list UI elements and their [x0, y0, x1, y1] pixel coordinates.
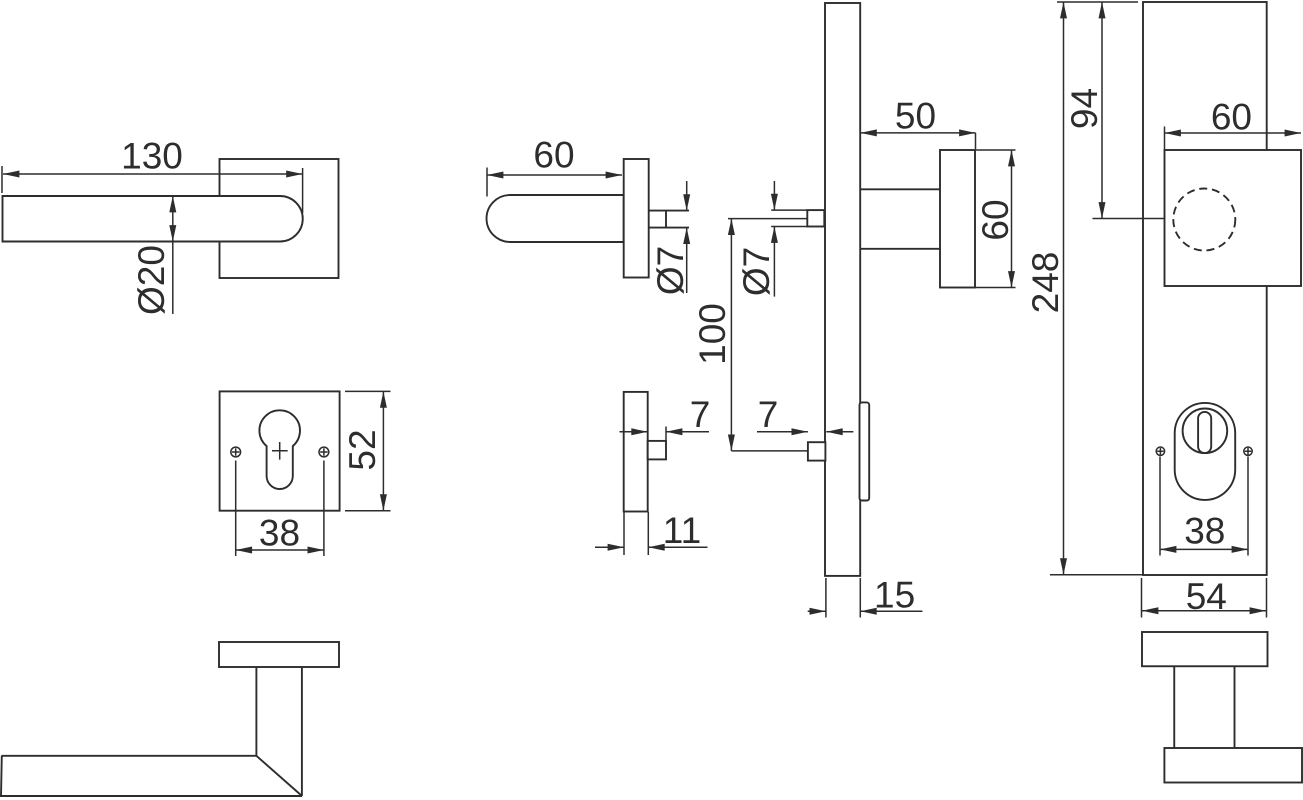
svg-text:94: 94: [1064, 88, 1105, 129]
knob rose plate (side view): [940, 150, 975, 288]
lever front view: square rose plate: [220, 159, 339, 278]
dim 15 arrow left: [860, 610, 922, 612]
dim 15 extension line left: [825, 578, 827, 618]
svg-text:Ø7: Ø7: [650, 246, 691, 295]
latch cover plate on door: [860, 402, 870, 500]
spindle pin extension top: [771, 209, 807, 211]
dim 52 dimension line: [382, 391, 384, 510]
lever top view: spindle stub bottom edge: [649, 227, 689, 229]
dim 60 dimension line: [487, 174, 622, 176]
dim 7 (stub) arrow right: [666, 431, 709, 433]
svg-text:60: 60: [975, 199, 1016, 240]
dim 60 (knob) dimension line: [1011, 150, 1013, 288]
lever top view: grip: [487, 195, 624, 242]
dim 54 extension line left: [1141, 578, 1143, 618]
lever top view: spindle stub top edge: [649, 210, 689, 212]
dim Ø20 leader line: [172, 242, 174, 315]
security plate: screw left: [1156, 447, 1164, 455]
knob neck top edge: [860, 188, 940, 190]
escutcheon: euro profile keyhole: [259, 410, 300, 489]
lever side view: grip end chamfer: [256, 756, 302, 796]
svg-text:38: 38: [1184, 511, 1225, 552]
dim Ø7 down arrow: [686, 181, 688, 211]
dim 54 dimension line: [1142, 610, 1266, 612]
handle axis reference line: [728, 218, 807, 220]
dim 38 (plate) extension line right: [1247, 457, 1249, 556]
knob side view: head: [1164, 748, 1302, 783]
lever side view: neck left edge: [255, 667, 257, 756]
dim 60 (square) extension line left: [1164, 127, 1166, 150]
security long plate (front view): [1143, 2, 1267, 575]
key slot: [1198, 412, 1211, 453]
dim 50 dimension line: [860, 132, 975, 134]
dim 60 (knob) extension line bottom: [975, 287, 1016, 289]
lever front view: handle bar: [3, 196, 303, 242]
dim 38 (plate) extension line left: [1159, 457, 1161, 556]
svg-text:50: 50: [895, 96, 936, 137]
dim 7 (stub) arrow left: [620, 431, 648, 433]
door panel (section): [825, 3, 860, 576]
dim 54 extension line right: [1266, 578, 1268, 618]
dim Ø20 double arrow: [172, 196, 174, 242]
svg-text:248: 248: [1025, 252, 1066, 314]
dim 7 (door) arrow right: [757, 431, 808, 433]
escutcheon front view: square plate: [220, 391, 340, 510]
knob neck bottom edge: [860, 248, 940, 250]
lever side view: grip bottom edge: [0, 795, 302, 797]
svg-text:Ø20: Ø20: [131, 245, 172, 315]
svg-text:60: 60: [1211, 97, 1252, 138]
svg-text:130: 130: [121, 136, 183, 177]
escutcheon side view: cylinder stub: [648, 441, 666, 460]
dim 11 extension line right: [647, 512, 649, 555]
dim 130 extension line right: [302, 168, 304, 213]
dim 52 extension line bottom: [345, 510, 391, 512]
spindle pin extension bottom: [771, 226, 807, 228]
svg-text:100: 100: [692, 303, 733, 365]
knob side view: rose plate: [1142, 632, 1268, 666]
escutcheon: center cross: [272, 442, 288, 460]
svg-text:Ø7: Ø7: [736, 247, 777, 296]
dim 11 arrow right: [648, 546, 707, 548]
svg-text:7: 7: [690, 394, 711, 435]
dim 50 extension line right: [975, 133, 977, 149]
cylinder core circle: [1183, 409, 1228, 454]
handle axis marker line: [1093, 218, 1165, 220]
upper spindle pin: [807, 210, 824, 226]
svg-text:52: 52: [342, 429, 383, 470]
escutcheon side view: plate: [624, 392, 648, 512]
dim 7 (stub) extension tick: [665, 427, 667, 441]
svg-text:11: 11: [663, 510, 701, 551]
dim 130 dimension line: [3, 173, 303, 175]
dim Ø7 (door) up arrow: [773, 227, 775, 297]
dim 38 (plate) dimension line: [1160, 548, 1248, 550]
dim 248 extension line bottom: [1050, 574, 1143, 576]
cylinder axis reference line: [731, 450, 808, 452]
dim 60 extension line left: [486, 168, 488, 197]
dim 38 extension line right: [323, 461, 325, 557]
security plate: screw right: [1244, 447, 1252, 455]
lever side view: neck right edge: [301, 667, 303, 796]
dim 11 extension line left: [623, 512, 625, 555]
dim 15 extension line right: [859, 578, 861, 618]
svg-text:15: 15: [874, 575, 915, 616]
dim 94 dimension line: [1101, 2, 1103, 219]
security plate: top square section: [1165, 150, 1302, 286]
dim Ø7 up arrow: [686, 228, 688, 293]
lever side view: rose plate: [219, 642, 339, 667]
dim 15 arrow right: [808, 610, 826, 612]
dim 248 extension line top: [1057, 1, 1138, 3]
dim 100 dimension line: [730, 219, 732, 451]
dim 130 extension line left: [1, 166, 3, 193]
lever side view: grip top edge: [1, 755, 256, 757]
dim 7 (door) arrow left: [826, 431, 853, 433]
dim 52 extension line top: [345, 390, 391, 392]
cylinder guard (stadium shape): [1175, 403, 1236, 500]
escutcheon: screw right: [319, 447, 329, 457]
svg-text:38: 38: [259, 513, 300, 554]
svg-text:54: 54: [1186, 576, 1227, 617]
lever top view: rose plate: [624, 159, 649, 278]
svg-text:60: 60: [533, 135, 574, 176]
dim 60 (knob) extension line top: [975, 149, 1016, 151]
knob side view: neck left edge: [1173, 666, 1175, 748]
dim 248 dimension line: [1063, 2, 1065, 575]
dim 38 dimension line: [236, 549, 324, 551]
escutcheon: screw left: [231, 447, 241, 457]
dashed handle hole circle: [1173, 189, 1235, 251]
lever side view: grip left end: [0, 756, 3, 796]
dim 38 extension line left: [235, 461, 237, 557]
dim 60 (square) dimension line: [1165, 132, 1302, 134]
knob side view: neck right edge: [1234, 666, 1236, 748]
lower cylinder pin: [808, 442, 826, 460]
dim Ø7 (door) down arrow: [773, 181, 775, 210]
svg-text:7: 7: [758, 394, 779, 435]
dim 11 arrow left: [595, 546, 624, 548]
lever top view: spindle stub end cap: [665, 211, 667, 228]
